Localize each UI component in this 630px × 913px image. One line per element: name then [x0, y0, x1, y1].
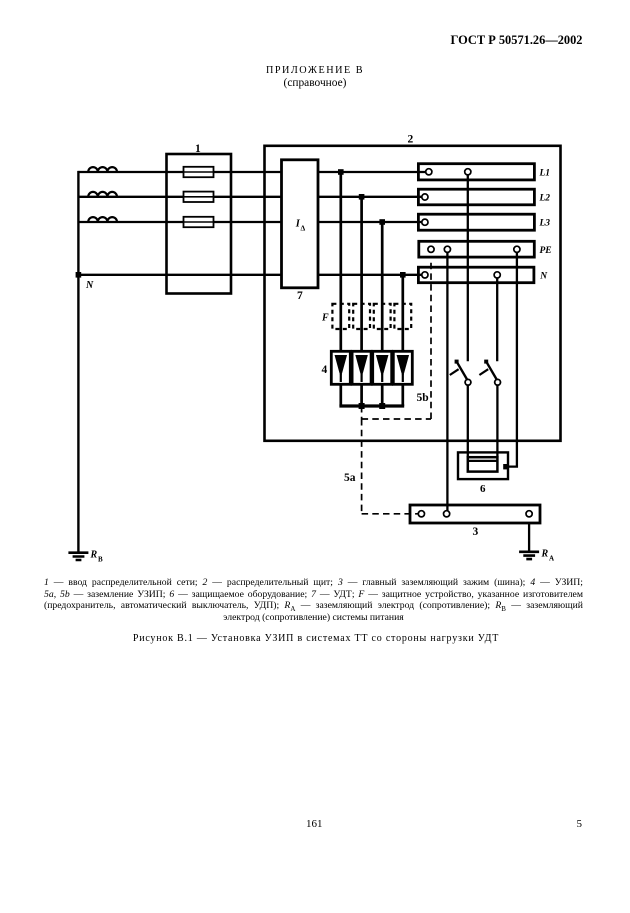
header: ГОСТ Р 50571.26—2002	[451, 33, 583, 48]
terminal circle bar3-2	[444, 511, 450, 517]
inductor winding L1	[88, 167, 117, 172]
fuse F3 in box 1	[184, 217, 214, 227]
svg-text:L1: L1	[539, 169, 551, 179]
RCD box 7	[282, 160, 319, 288]
box 1 supply entrance	[167, 154, 232, 294]
ground Ra label	[541, 549, 555, 563]
node N junction at star point	[76, 272, 82, 278]
wire L1 bar to switch S1	[467, 175, 469, 362]
figure caption	[0, 633, 630, 644]
terminal circle PE-2	[444, 246, 450, 252]
main earthing terminal bar 3	[410, 505, 540, 523]
node bus junction a	[359, 403, 365, 409]
wire earthing bar to ground Ra	[528, 523, 530, 551]
SPD 4 unit 4	[393, 351, 412, 384]
svg-text:B: B	[98, 556, 103, 564]
label 2	[408, 134, 414, 146]
wire SPD1 to earth bus	[339, 384, 342, 406]
busbar L2	[418, 189, 534, 205]
svg-text:R: R	[90, 550, 98, 561]
svg-text:R: R	[541, 549, 549, 560]
terminal circle L1-2	[465, 169, 471, 175]
net label L1	[539, 169, 551, 179]
fuse F dashed unit 3	[374, 304, 391, 329]
svg-text:2: 2	[408, 134, 414, 146]
SPD 4 unit 1	[331, 351, 350, 384]
terminal circle bar3-3	[526, 511, 532, 517]
label F	[321, 313, 329, 324]
label 5b	[417, 392, 429, 404]
ground Rb label	[90, 550, 104, 564]
terminal circle N-1	[422, 272, 428, 278]
svg-text:6: 6	[480, 483, 486, 495]
svg-text:L2: L2	[539, 194, 551, 204]
wire PE bar to equipment enclosure	[508, 253, 517, 467]
terminal circle PE-3	[514, 246, 520, 252]
label 1	[195, 143, 201, 155]
terminal circle bar3-1	[418, 511, 424, 517]
busbar L3	[418, 214, 534, 230]
net label L3	[539, 219, 551, 229]
busbar N	[418, 267, 534, 283]
wire L1	[78, 171, 428, 173]
wire SPD common earth bus	[339, 404, 404, 407]
fuse F dashed unit 1	[332, 304, 349, 329]
caption line 3	[44, 600, 583, 615]
wire 5a dashed to main earthing bar	[362, 419, 419, 514]
caption line 2	[44, 589, 583, 601]
ground Rb electrode symbol	[68, 553, 88, 560]
terminal circle L3	[422, 219, 428, 225]
svg-text:1: 1	[195, 143, 201, 155]
label 7	[297, 290, 303, 302]
inductor winding L3	[88, 217, 117, 222]
wire source star point vertical	[77, 171, 79, 552]
terminal circle L2	[422, 194, 428, 200]
node tap L2	[359, 194, 365, 200]
ground Ra electrode symbol	[519, 552, 539, 559]
RCD label I-delta	[295, 219, 306, 233]
node N label	[85, 280, 94, 291]
net label L2	[539, 194, 551, 204]
node PE to enclosure junction	[503, 464, 508, 469]
wire switch S2 to equipment	[496, 385, 498, 457]
SPD 4 unit 2	[352, 351, 371, 384]
label 3	[473, 526, 479, 538]
wire tap 1 down	[339, 172, 342, 351]
wire tap 2 down	[360, 197, 363, 351]
busbar L1	[418, 164, 534, 180]
net label N	[539, 272, 548, 282]
page number right	[577, 818, 583, 830]
wire PE bar to earthing bar 3	[446, 253, 448, 511]
svg-text:F: F	[321, 313, 329, 324]
inductor winding L2	[88, 192, 117, 197]
node tap L1	[338, 169, 344, 175]
svg-text:N: N	[85, 280, 94, 291]
label 4	[322, 364, 328, 376]
node bus junction b	[379, 403, 385, 409]
svg-text:4: 4	[322, 364, 328, 376]
svg-text:Δ: Δ	[301, 224, 306, 233]
caption line 1	[44, 577, 583, 589]
svg-text:A: A	[549, 555, 554, 563]
page number center	[306, 818, 323, 830]
heading ПРИЛОЖЕНИЕ В	[0, 65, 630, 76]
switch S1	[450, 360, 471, 386]
node tap L3	[379, 219, 385, 225]
label 6	[480, 483, 486, 495]
terminal circle L1-1	[426, 169, 432, 175]
fuse F1 in box 1	[184, 167, 214, 177]
svg-text:3: 3	[473, 526, 479, 538]
fuse F dashed unit 4	[394, 304, 411, 329]
wire tap 3 down	[381, 222, 384, 351]
svg-text:L3: L3	[539, 219, 551, 229]
protected equipment box 6	[458, 452, 508, 479]
label 5a	[344, 472, 356, 484]
svg-text:N: N	[539, 272, 548, 282]
wire N bar to switch S2	[496, 278, 498, 361]
fuse F dashed unit 2	[353, 304, 370, 329]
svg-text:5a: 5a	[344, 472, 356, 484]
svg-text:5b: 5b	[417, 392, 429, 404]
wire SPD4 to earth bus	[401, 384, 404, 406]
wire 5b dashed to PE bar	[362, 256, 431, 419]
terminal circle PE-1	[428, 246, 434, 252]
busbar PE	[419, 241, 535, 257]
switch S2	[479, 360, 500, 386]
wire SPD2 to earth bus	[360, 384, 363, 406]
terminal circle N-2	[494, 272, 500, 278]
node tap N	[400, 272, 406, 278]
wire L2	[78, 196, 425, 198]
box 2 distribution board	[265, 146, 561, 441]
caption line 4	[44, 612, 583, 624]
wire switch S1 to equipment	[467, 385, 469, 457]
wire L3	[78, 221, 425, 223]
SPD 4 unit 3	[373, 351, 392, 384]
svg-text:7: 7	[297, 290, 303, 302]
svg-text:PE: PE	[540, 246, 552, 256]
wire N	[78, 274, 425, 276]
wire tap 4 down	[401, 275, 404, 352]
fuse F2 in box 1	[184, 192, 214, 202]
wire SPD3 to earth bus	[381, 384, 384, 406]
net label PE	[540, 246, 552, 256]
